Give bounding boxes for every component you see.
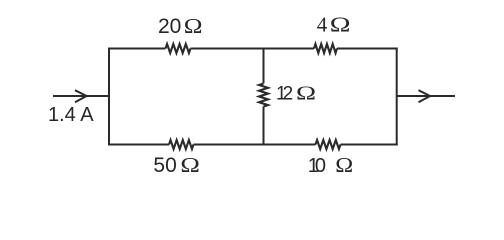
wire middle upper segment <box>263 49 265 84</box>
svg-text:Ω: Ω <box>296 83 316 105</box>
resistor 50Ω <box>169 140 193 149</box>
svg-text:Ω: Ω <box>330 14 351 37</box>
wire right vertical <box>396 48 398 146</box>
svg-text:10: 10 <box>308 155 326 177</box>
svg-text:12: 12 <box>276 84 293 105</box>
resistor 4Ω <box>314 44 337 53</box>
svg-text:Ω: Ω <box>335 153 353 176</box>
svg-text:20: 20 <box>158 15 181 38</box>
svg-text:1.4 A: 1.4 A <box>48 104 94 126</box>
svg-text:Ω: Ω <box>180 154 200 177</box>
svg-text:Ω: Ω <box>184 15 203 39</box>
wire top-middle segment <box>191 48 315 50</box>
svg-text:50: 50 <box>153 154 176 177</box>
wire middle lower segment <box>263 107 265 145</box>
resistor 12Ω <box>259 84 268 107</box>
wire bottom-right segment <box>341 144 398 146</box>
wire input lead <box>53 95 109 97</box>
svg-text:4: 4 <box>317 13 328 37</box>
current arrow in <box>75 90 87 102</box>
wire left vertical <box>108 48 110 146</box>
wire top-right segment <box>337 48 398 50</box>
resistor 20Ω <box>166 44 191 53</box>
wire output lead <box>397 95 455 97</box>
resistor 10Ω <box>316 140 341 149</box>
wire top-left segment <box>108 48 166 50</box>
wire bottom-left segment <box>108 144 169 146</box>
wire bottom-middle segment <box>194 144 316 146</box>
current arrow out <box>419 90 431 102</box>
